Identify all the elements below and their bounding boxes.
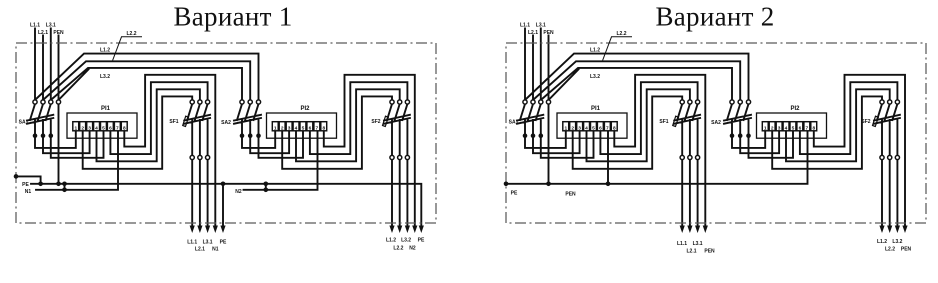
svg-text:PE: PE xyxy=(22,182,29,188)
svg-text:L2.2: L2.2 xyxy=(393,246,403,252)
svg-text:PE: PE xyxy=(511,191,518,197)
svg-text:L3.1: L3.1 xyxy=(693,241,703,247)
svg-text:7: 7 xyxy=(805,125,808,131)
svg-text:PEN: PEN xyxy=(901,247,912,253)
svg-text:1: 1 xyxy=(274,125,277,131)
svg-text:PEN: PEN xyxy=(53,30,64,36)
svg-text:L2.2: L2.2 xyxy=(126,31,136,37)
svg-text:L1.1: L1.1 xyxy=(677,241,687,247)
svg-text:3: 3 xyxy=(578,125,581,131)
svg-text:L1.2: L1.2 xyxy=(100,48,110,54)
svg-text:L3.2: L3.2 xyxy=(892,239,902,245)
svg-text:PI1: PI1 xyxy=(101,106,111,112)
svg-text:8: 8 xyxy=(322,125,325,131)
svg-text:SF2: SF2 xyxy=(371,119,380,125)
svg-text:SA2: SA2 xyxy=(221,120,231,126)
svg-text:L3.1: L3.1 xyxy=(203,239,213,245)
svg-text:PI2: PI2 xyxy=(790,106,800,112)
svg-text:1: 1 xyxy=(764,125,767,131)
svg-text:L3.2: L3.2 xyxy=(100,74,110,80)
svg-text:6: 6 xyxy=(109,125,112,131)
svg-text:L1.1: L1.1 xyxy=(187,239,197,245)
svg-text:2: 2 xyxy=(81,125,84,131)
svg-text:6: 6 xyxy=(309,125,312,131)
svg-text:5: 5 xyxy=(792,125,795,131)
svg-text:8: 8 xyxy=(812,125,815,131)
svg-text:8: 8 xyxy=(613,125,616,131)
svg-text:L2.1: L2.1 xyxy=(195,247,205,253)
svg-text:5: 5 xyxy=(592,125,595,131)
svg-text:PI2: PI2 xyxy=(300,106,310,112)
svg-text:L1.2: L1.2 xyxy=(590,48,600,54)
svg-text:L1.2: L1.2 xyxy=(877,239,887,245)
svg-text:SF1: SF1 xyxy=(169,119,178,125)
svg-text:5: 5 xyxy=(302,125,305,131)
svg-text:SA2: SA2 xyxy=(711,120,721,126)
svg-text:L2.1: L2.1 xyxy=(38,30,48,36)
svg-text:L3.2: L3.2 xyxy=(590,74,600,80)
svg-text:L2.1: L2.1 xyxy=(686,249,696,255)
svg-text:1: 1 xyxy=(564,125,567,131)
svg-text:Вариант 1: Вариант 1 xyxy=(173,2,292,32)
svg-text:3: 3 xyxy=(288,125,291,131)
svg-text:Вариант 2: Вариант 2 xyxy=(655,2,774,32)
svg-text:6: 6 xyxy=(799,125,802,131)
svg-text:PE: PE xyxy=(220,239,227,245)
svg-text:N1: N1 xyxy=(25,189,32,195)
svg-text:2: 2 xyxy=(771,125,774,131)
svg-text:N1: N1 xyxy=(212,247,219,253)
svg-text:2: 2 xyxy=(281,125,284,131)
svg-text:4: 4 xyxy=(585,125,588,131)
svg-text:L2.1: L2.1 xyxy=(528,30,538,36)
svg-text:PE: PE xyxy=(418,238,425,244)
svg-text:SF2: SF2 xyxy=(861,119,870,125)
svg-text:L1.1: L1.1 xyxy=(30,23,40,29)
svg-text:PEN: PEN xyxy=(543,30,554,36)
svg-text:4: 4 xyxy=(785,125,788,131)
svg-text:7: 7 xyxy=(315,125,318,131)
svg-text:4: 4 xyxy=(295,125,298,131)
svg-text:5: 5 xyxy=(102,125,105,131)
svg-text:7: 7 xyxy=(606,125,609,131)
svg-text:8: 8 xyxy=(123,125,126,131)
svg-text:N2: N2 xyxy=(409,246,416,252)
svg-text:L2.2: L2.2 xyxy=(885,247,895,253)
svg-text:6: 6 xyxy=(599,125,602,131)
svg-text:SA1: SA1 xyxy=(19,120,29,126)
svg-text:PEN: PEN xyxy=(565,192,576,198)
svg-text:N2: N2 xyxy=(235,189,242,195)
svg-text:7: 7 xyxy=(116,125,119,131)
svg-text:L1.2: L1.2 xyxy=(386,238,396,244)
svg-text:L1.1: L1.1 xyxy=(520,23,530,29)
svg-text:3: 3 xyxy=(88,125,91,131)
svg-text:SA1: SA1 xyxy=(509,120,519,126)
svg-text:1: 1 xyxy=(74,125,77,131)
svg-text:PI1: PI1 xyxy=(591,106,601,112)
svg-text:L3.2: L3.2 xyxy=(401,238,411,244)
svg-text:2: 2 xyxy=(571,125,574,131)
svg-text:L3.1: L3.1 xyxy=(46,23,56,29)
svg-text:L2.2: L2.2 xyxy=(616,31,626,37)
svg-text:PEN: PEN xyxy=(704,249,715,255)
svg-text:4: 4 xyxy=(95,125,98,131)
svg-text:L3.1: L3.1 xyxy=(536,23,546,29)
svg-text:3: 3 xyxy=(778,125,781,131)
svg-text:SF1: SF1 xyxy=(659,119,668,125)
